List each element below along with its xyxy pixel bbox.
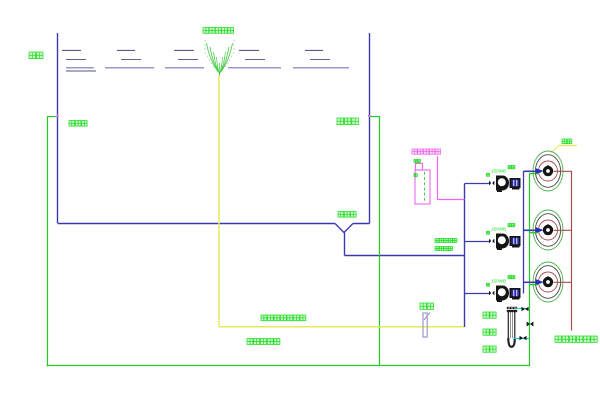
svg-text:150WB: 150WB bbox=[491, 227, 506, 232]
svg-text:150WB: 150WB bbox=[491, 279, 506, 284]
svg-text:150WB: 150WB bbox=[491, 169, 506, 174]
